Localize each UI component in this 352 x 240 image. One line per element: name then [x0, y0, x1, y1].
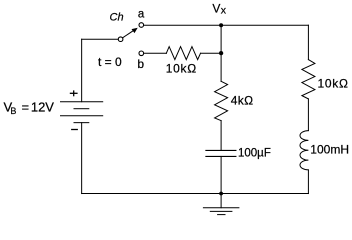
switch blade [123, 31, 134, 38]
wire from terminal b [144, 52, 166, 54]
svg-text:a: a [138, 9, 145, 21]
wire right branch middle [307, 99, 309, 131]
junction dot node b-branch [219, 51, 223, 55]
svg-text:4kΩ: 4kΩ [231, 94, 254, 108]
battery VB short plate mid [74, 108, 89, 110]
wire right branch upper [307, 25, 309, 59]
wire to switch pivot [82, 38, 119, 40]
junction dot node Vx [219, 23, 223, 27]
svg-text:V: V [45, 100, 54, 115]
resistor R3 4k [215, 81, 228, 120]
battery VB long plate top [61, 101, 103, 103]
svg-text:B: B [10, 106, 16, 116]
svg-text:10kΩ: 10kΩ [318, 77, 349, 91]
svg-text:t = 0: t = 0 [98, 55, 122, 69]
switch pivot contact [118, 37, 123, 42]
terminal a contact [139, 23, 144, 28]
terminal b contact [139, 51, 144, 56]
svg-text:x: x [221, 4, 227, 16]
wire middle branch upper [220, 25, 222, 81]
wire battery negative to bottom rail [81, 123, 83, 194]
wire resistor R2 to node [201, 52, 222, 54]
switch arrowhead [132, 28, 138, 33]
svg-text:100µF: 100µF [238, 147, 271, 159]
battery VB long plate lower [61, 115, 103, 117]
capacitor C1 100uF plate top [206, 149, 236, 151]
resistor R1 10k right branch [302, 60, 315, 99]
ground stub [220, 194, 222, 208]
wire right branch lower [307, 170, 309, 194]
svg-text:V: V [212, 1, 220, 15]
wire capacitor to bottom rail [220, 156, 222, 193]
wire resistor R3 to capacitor [220, 121, 222, 151]
svg-text:Ch: Ch [110, 12, 124, 24]
battery plus sign [70, 90, 78, 96]
capacitor C1 100uF plate bottom [206, 155, 236, 157]
svg-text:10kΩ: 10kΩ [166, 61, 197, 75]
junction dot bottom node [219, 192, 223, 196]
ground bar 1 [203, 207, 239, 209]
battery VB short plate bottom [74, 122, 89, 124]
svg-text:=: = [22, 100, 30, 115]
svg-text:100mH: 100mH [310, 143, 349, 157]
ground bar 3 [218, 214, 225, 216]
ground bar 2 [210, 210, 232, 212]
wire top node a to right branch [144, 24, 309, 26]
inductor L1 100mH [300, 131, 308, 170]
battery minus sign [71, 129, 78, 131]
svg-text:12: 12 [31, 100, 45, 115]
resistor R2 10k series [166, 47, 200, 60]
wire bottom rail [82, 193, 309, 195]
svg-text:b: b [137, 57, 144, 71]
wire battery positive up to switch [81, 39, 83, 101]
